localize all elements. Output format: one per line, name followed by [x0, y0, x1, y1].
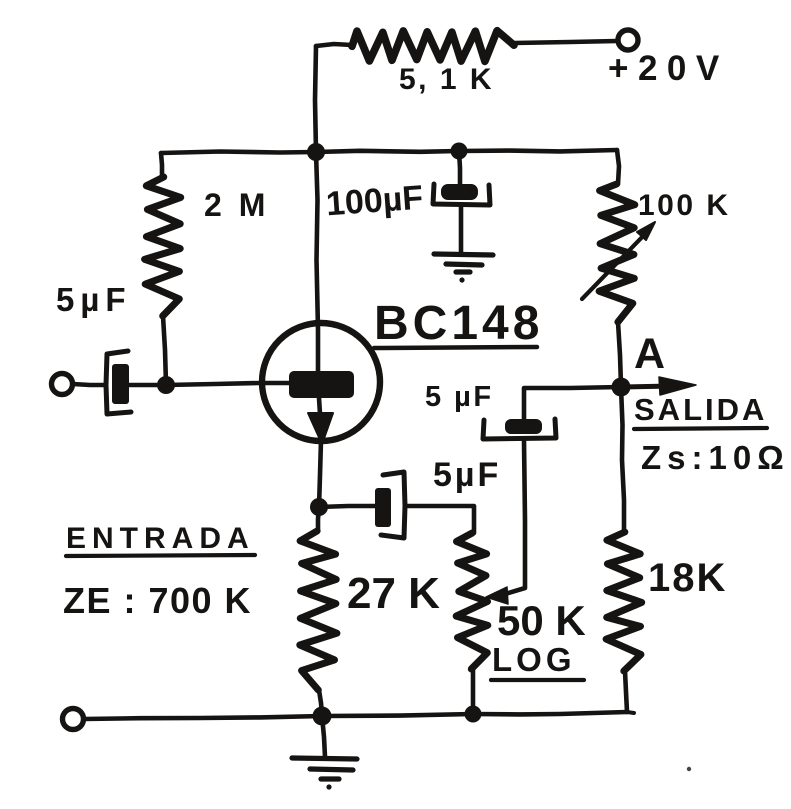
- label SALIDA: [634, 394, 767, 425]
- node A junction: [612, 378, 631, 397]
- wire emitter node to 5uF cap: [319, 506, 377, 507]
- transistor emitter arrow: [308, 413, 333, 444]
- node junction at collector rail: [307, 143, 325, 161]
- label 2M: [204, 189, 269, 221]
- node bottom 27K junction: [313, 707, 332, 726]
- label LOG: [492, 643, 576, 676]
- terminal bottom left: [63, 709, 84, 730]
- wire 5.1K to +20V terminal: [514, 41, 617, 43]
- label 50K: [497, 600, 586, 642]
- label 100uF: [325, 181, 424, 222]
- wire rail corner down to 100K: [617, 150, 619, 184]
- arrow salida output: [621, 386, 672, 387]
- stray ink dot: [687, 767, 691, 771]
- label ZE:700K: [63, 583, 252, 619]
- transistor Q1 BC148 : envelope circle: [262, 323, 380, 441]
- capacitor C 5uF input : bracket plate: [106, 351, 131, 414]
- wire 18K bottom to rail: [625, 671, 627, 712]
- capacitor C 5uF output : cup plate: [483, 419, 556, 439]
- wire input terminal to cap: [73, 384, 106, 385]
- wire rail to 2M top: [161, 153, 162, 177]
- label 27K: [347, 572, 440, 616]
- node emitter junction: [310, 498, 328, 516]
- potentiometer 100K wiper arrow: [582, 231, 648, 299]
- capacitor C 5uF output : filled plate: [505, 419, 542, 434]
- wire emitter node down to 27K: [318, 507, 319, 531]
- transistor base bar: [289, 371, 354, 398]
- potentiometer R 50K: [456, 533, 488, 669]
- underline LOG: [491, 678, 584, 682]
- label ENTRADA: [66, 524, 255, 554]
- wire top to 5.1K resistor: [316, 44, 352, 46]
- underline BC148: [374, 347, 537, 348]
- capacitor C 5uF emitter : bracket plate: [381, 472, 405, 538]
- wire cap to 50K top: [405, 506, 474, 533]
- label BC148: [374, 300, 543, 348]
- resistor R 5,1K: [352, 31, 514, 62]
- wire cap to base node: [129, 383, 166, 388]
- label 5uF emitter: [433, 458, 501, 492]
- wire junction down to 100uF: [459, 151, 460, 186]
- ground bottom: [292, 758, 357, 779]
- wire bottom rail: [84, 712, 627, 719]
- arrow wiper 50K: [486, 587, 508, 604]
- underline SALIDA: [634, 428, 767, 429]
- wire second rail horizontal: [161, 150, 617, 153]
- capacitor C 5uF emitter : filled plate: [375, 488, 391, 527]
- wire 50K bottom to rail: [471, 669, 476, 714]
- capacitor C 100uF : filled plate: [441, 184, 478, 200]
- label 18K: [648, 558, 727, 598]
- resistor R 2M: [145, 177, 181, 316]
- terminal input: [52, 374, 73, 395]
- label 100K: [638, 191, 731, 221]
- label 5uF output: [425, 383, 494, 412]
- potentiometer R 100K: [599, 184, 635, 322]
- wire 100K bottom to node A: [618, 322, 621, 386]
- wire emitter down to emitter node: [319, 440, 321, 507]
- underline ENTRADA: [66, 555, 255, 556]
- wire collector down into transistor: [316, 152, 318, 372]
- wire rail to ground: [322, 716, 325, 757]
- capacitor C 100uF : cup plate: [433, 184, 490, 205]
- wire collector rail vertical (top bend to transistor): [315, 46, 316, 152]
- wire node A down to 18K: [621, 387, 624, 532]
- capacitor C 5uF input : filled plate: [112, 364, 129, 404]
- label 5,1K: [399, 65, 494, 95]
- wire node A left to output cap: [524, 387, 621, 420]
- node bottom 50K junction: [465, 706, 482, 723]
- wire overshoot bottom right corner: [627, 712, 634, 713]
- label A: [634, 333, 665, 376]
- wire emitter inside circle: [319, 398, 320, 414]
- ground under 100uF: [434, 254, 493, 272]
- wire output cap down to 50K wiper: [505, 441, 525, 594]
- wire base node to transistor: [166, 383, 292, 385]
- resistor R 27K: [300, 531, 337, 690]
- wire 27K bottom to rail: [319, 690, 322, 715]
- wire 100uF to ground: [459, 207, 464, 252]
- terminal +20V: [618, 30, 638, 50]
- node junction at 100uF branch: [451, 143, 468, 160]
- wire 2M bottom to base node: [163, 316, 166, 384]
- resistor R 18K: [606, 532, 642, 671]
- label 5uF input: [56, 283, 132, 316]
- node base junction: [157, 376, 175, 394]
- label +20V: [608, 51, 729, 86]
- label Zs:10ohm: [641, 441, 790, 474]
